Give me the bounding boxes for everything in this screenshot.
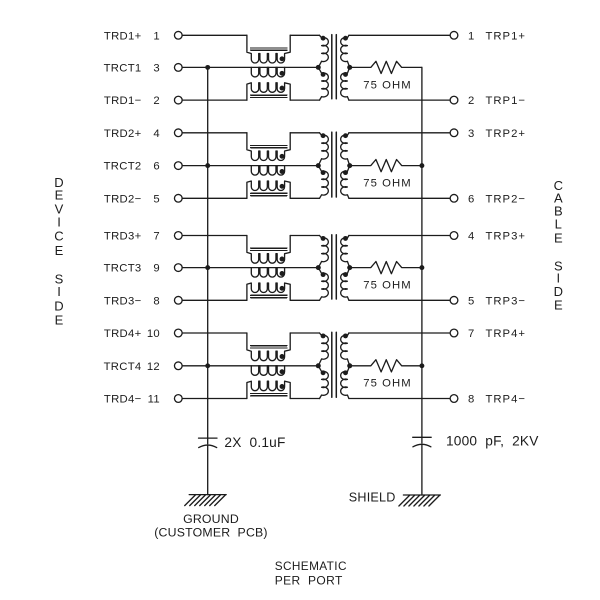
junction node CT3 on ground bus <box>205 265 210 270</box>
transformer T1 primary winding <box>318 35 328 67</box>
svg-text:TRD4−: TRD4− <box>104 394 142 406</box>
svg-text:TRP1+: TRP1+ <box>486 30 526 42</box>
common-mode choke L2 middle winding <box>251 166 284 176</box>
transformer T2 core <box>332 132 337 197</box>
pin 7 terminal TRP4+ <box>450 329 458 337</box>
choke L1 phase dots <box>280 56 285 61</box>
transformer T3 core <box>332 235 337 299</box>
common-mode choke L3 middle winding <box>251 268 284 278</box>
pin 4 terminal TRD2+ <box>174 129 182 137</box>
pin 5 terminal TRD2− <box>174 194 182 202</box>
wire choke to transformer bottom <box>290 99 319 101</box>
pin 3 terminal TRCT1 <box>174 64 182 72</box>
pin 1 terminal TRD1+ <box>174 31 182 39</box>
pin 6 terminal TRP2− <box>450 194 458 202</box>
svg-text:I: I <box>57 215 61 230</box>
svg-text:TRP2−: TRP2− <box>486 193 526 205</box>
transformer T1 secondary winding <box>341 35 350 67</box>
transformer T3 phase dots and center taps <box>321 236 326 241</box>
pin 8 terminal TRD3− <box>174 296 182 304</box>
svg-text:E: E <box>55 313 64 328</box>
svg-text:5: 5 <box>468 295 475 307</box>
wire shield bus (cable side) <box>421 67 423 495</box>
common-mode choke L1 bottom winding <box>247 83 290 100</box>
wire choke to transformer bottom <box>290 398 319 400</box>
wire ground bus (device side) <box>207 67 209 494</box>
wire choke to transformer top <box>290 235 319 237</box>
transformer T4 core <box>332 332 337 397</box>
svg-text:4: 4 <box>468 231 475 243</box>
svg-text:TRP2+: TRP2+ <box>486 128 526 140</box>
pin 12 terminal TRCT4 <box>174 362 182 370</box>
wire choke to transformer bottom <box>290 299 319 301</box>
pin 9 terminal TRCT3 <box>174 264 182 272</box>
wire choke to transformer top <box>290 332 319 334</box>
wire transformer to pin 5 TRP3− <box>349 299 450 301</box>
pin 8 terminal TRP4− <box>450 395 458 403</box>
transformer T2 secondary winding <box>341 133 350 166</box>
ground (customer pcb) <box>185 495 227 506</box>
wire TRD1- from pin to choke <box>182 99 247 101</box>
pin 7 terminal TRD3+ <box>174 232 182 240</box>
choke L2 core <box>251 145 287 195</box>
junction resistor R3 to shield bus <box>419 265 424 270</box>
ground shield <box>399 495 441 506</box>
svg-text:3: 3 <box>468 128 475 140</box>
pin 2 terminal TRP1− <box>450 96 458 104</box>
wire transformer to pin 4 TRP3+ <box>349 235 450 237</box>
svg-text:TRD3−: TRD3− <box>104 295 142 307</box>
svg-text:6: 6 <box>153 161 160 173</box>
svg-text:75 OHM: 75 OHM <box>363 378 411 390</box>
svg-text:SCHEMATIC: SCHEMATIC <box>275 559 347 573</box>
svg-text:1: 1 <box>153 30 160 42</box>
svg-text:TRD3+: TRD3+ <box>104 231 142 243</box>
transformer T4 phase dots and center taps <box>321 333 326 338</box>
transformer T1 core <box>332 35 337 99</box>
pin 3 terminal TRP2+ <box>450 129 458 137</box>
common-mode choke L2 top winding <box>247 133 290 161</box>
label CABLE SIDE (vertical) <box>554 178 563 313</box>
transformer T1 phase dots and center taps <box>321 36 326 41</box>
wire transformer to pin 8 TRP4− <box>349 398 450 400</box>
choke L2 phase dots <box>280 154 285 159</box>
common-mode choke L4 top winding <box>247 333 290 361</box>
svg-text:E: E <box>55 243 64 258</box>
transformer T2 phase dots and center taps <box>321 133 326 138</box>
junction node CT4 on ground bus <box>205 363 210 368</box>
common-mode choke L3 bottom winding <box>247 283 290 300</box>
wire transformer to pin 2 TRP1− <box>349 99 450 101</box>
junction node CT2 on ground bus <box>205 163 210 168</box>
svg-text:TRCT1: TRCT1 <box>104 63 142 75</box>
svg-text:75 OHM: 75 OHM <box>363 280 411 292</box>
svg-text:TRP4−: TRP4− <box>486 394 526 406</box>
choke L3 phase dots <box>280 257 285 262</box>
svg-text:TRD2−: TRD2− <box>104 193 142 205</box>
svg-text:TRD4+: TRD4+ <box>104 328 142 340</box>
svg-text:D: D <box>54 298 63 313</box>
svg-text:6: 6 <box>468 193 475 205</box>
svg-text:4: 4 <box>153 128 160 140</box>
svg-text:8: 8 <box>153 295 160 307</box>
svg-text:C: C <box>54 229 63 244</box>
svg-text:TRCT3: TRCT3 <box>104 263 142 275</box>
pin 5 terminal TRP3− <box>450 296 458 304</box>
common-mode choke L4 middle winding <box>251 366 284 376</box>
svg-text:E: E <box>554 298 563 313</box>
wire TRCT4 from pin to transformer center tap (node CT4) <box>182 365 318 367</box>
wire TRCT3 from pin to transformer center tap (node CT3) <box>182 267 318 269</box>
capacitor C1 2X 0.1uF <box>199 438 218 448</box>
wire TRD4- from pin to choke <box>182 398 247 400</box>
svg-text:TRD1−: TRD1− <box>104 95 142 107</box>
choke L4 phase dots <box>280 354 285 359</box>
svg-text:11: 11 <box>148 394 160 406</box>
wire choke to transformer top <box>290 34 319 36</box>
resistor R2 75 OHM <box>350 160 422 172</box>
svg-text:TRD2+: TRD2+ <box>104 128 142 140</box>
transformer T4 primary winding <box>318 333 328 366</box>
svg-text:2: 2 <box>468 95 475 107</box>
choke L1 core <box>251 48 287 98</box>
svg-text:8: 8 <box>468 394 475 406</box>
wire transformer to pin 7 TRP4+ <box>349 332 450 334</box>
junction node CT1 on ground bus <box>205 65 210 70</box>
svg-text:SHIELD: SHIELD <box>349 490 396 504</box>
wire TRD2+ from pin to choke <box>182 132 247 134</box>
svg-text:TRP4+: TRP4+ <box>486 328 526 340</box>
pin 6 terminal TRCT2 <box>174 162 182 170</box>
pin 10 terminal TRD4+ <box>174 329 182 337</box>
svg-text:10: 10 <box>147 328 160 340</box>
svg-text:2: 2 <box>153 95 160 107</box>
svg-text:TRP3+: TRP3+ <box>486 231 526 243</box>
capacitor C2 1000 pF 2KV <box>413 437 432 447</box>
svg-text:5: 5 <box>153 193 160 205</box>
pin 11 terminal TRD4− <box>174 395 182 403</box>
transformer T3 secondary winding <box>341 236 350 268</box>
svg-text:1000 pF, 2KV: 1000 pF, 2KV <box>446 433 539 448</box>
svg-text:75 OHM: 75 OHM <box>363 79 411 91</box>
wire TRD1+ from pin to choke <box>182 34 247 36</box>
svg-text:E: E <box>55 188 64 203</box>
common-mode choke L2 bottom winding <box>247 181 290 198</box>
junction resistor R4 to shield bus <box>419 363 424 368</box>
common-mode choke L4 bottom winding <box>247 381 290 398</box>
wire choke to transformer top <box>290 132 319 134</box>
svg-text:PER PORT: PER PORT <box>275 573 343 587</box>
wire TRD2- from pin to choke <box>182 197 247 199</box>
pin 4 terminal TRP3+ <box>450 232 458 240</box>
svg-text:TRCT2: TRCT2 <box>104 161 142 173</box>
svg-text:TRCT4: TRCT4 <box>104 361 142 373</box>
wire choke to transformer bottom <box>290 197 319 199</box>
wire TRCT1 from pin to transformer center tap (node CT1) <box>182 66 318 68</box>
resistor R3 75 OHM <box>350 262 422 274</box>
common-mode choke L1 middle winding <box>251 67 284 77</box>
svg-text:I: I <box>57 284 61 299</box>
wire TRD3- from pin to choke <box>182 299 247 301</box>
svg-text:GROUND: GROUND <box>183 512 239 526</box>
svg-text:9: 9 <box>153 263 160 275</box>
wire transformer to pin 6 TRP2− <box>349 197 450 199</box>
junction resistor R2 to shield bus <box>419 163 424 168</box>
wire TRCT2 from pin to transformer center tap (node CT2) <box>182 165 318 167</box>
svg-text:12: 12 <box>147 361 160 373</box>
common-mode choke L1 top winding <box>247 35 290 63</box>
transformer T2 primary winding <box>318 133 328 166</box>
pin 2 terminal TRD1− <box>174 96 182 104</box>
transformer T3 primary winding <box>318 236 328 268</box>
wire transformer to pin 3 TRP2+ <box>349 132 450 134</box>
transformer T4 secondary winding <box>341 333 350 366</box>
svg-text:3: 3 <box>153 63 160 75</box>
choke L4 core <box>251 346 287 396</box>
wire TRD3+ from pin to choke <box>182 235 247 237</box>
svg-text:(CUSTOMER PCB): (CUSTOMER PCB) <box>154 525 267 539</box>
svg-text:E: E <box>554 230 563 245</box>
wire TRD4+ from pin to choke <box>182 332 247 334</box>
choke L3 core <box>251 248 287 298</box>
svg-text:7: 7 <box>468 328 475 340</box>
wire transformer to pin 1 TRP1+ <box>349 34 450 36</box>
svg-text:2X 0.1uF: 2X 0.1uF <box>224 435 285 450</box>
svg-text:1: 1 <box>468 30 475 42</box>
resistor R4 75 OHM <box>350 360 422 372</box>
svg-text:TRP3−: TRP3− <box>486 295 526 307</box>
svg-text:75 OHM: 75 OHM <box>363 178 411 190</box>
pin 1 terminal TRP1+ <box>450 31 458 39</box>
svg-text:TRD1+: TRD1+ <box>104 30 142 42</box>
svg-text:TRP1−: TRP1− <box>486 95 526 107</box>
common-mode choke L3 top winding <box>247 236 290 264</box>
resistor R1 75 OHM <box>350 61 422 73</box>
label DEVICE SIDE (vertical) <box>54 175 63 328</box>
svg-text:7: 7 <box>153 231 160 243</box>
